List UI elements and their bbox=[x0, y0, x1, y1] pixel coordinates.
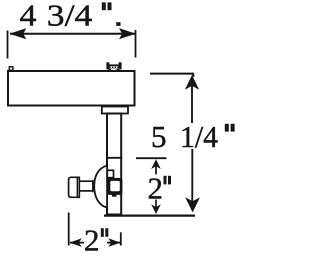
inch quote marks right 2 bbox=[164, 176, 167, 185]
right extension line bbox=[135, 30, 137, 58]
contact clip right foot bbox=[117, 69, 120, 71]
clamp nut lower nub bbox=[112, 195, 117, 197]
contact clip white dashes bbox=[111, 67, 112, 68]
5 1/4 dimension line lower bbox=[191, 149, 193, 205]
bottom 2 inch left arrowhead bbox=[69, 238, 81, 247]
bottom 2 inch left extension line bbox=[68, 213, 70, 246]
knob shaft bottom line bbox=[79, 190, 94, 192]
5 1/4 top reference line bbox=[150, 73, 194, 75]
2 inch down arrowhead bbox=[151, 204, 161, 214]
svg-text:2: 2 bbox=[84, 223, 100, 256]
T-handle cap inner line bbox=[76, 178, 78, 198]
2 inch tick line bbox=[136, 157, 167, 159]
small tab above nut bbox=[107, 170, 113, 177]
stem tube bbox=[107, 114, 121, 215]
2 inch upper stem bbox=[155, 165, 157, 175]
svg-text:4: 4 bbox=[20, 0, 38, 32]
knob horn arc bbox=[94, 166, 106, 208]
left extension line bbox=[7, 31, 9, 59]
small tab on bar top-left bbox=[9, 67, 13, 70]
bottom 2 inch left line bbox=[70, 242, 84, 244]
inch quote marks bottom 2 bbox=[101, 228, 104, 237]
T-handle cap bbox=[69, 177, 80, 197]
5 1/4 dimension line upper bbox=[191, 85, 193, 123]
svg-text:5: 5 bbox=[151, 119, 167, 154]
knob shaft top line bbox=[79, 180, 94, 182]
contact clip dark band bbox=[109, 66, 119, 68]
2 inch lower stem bbox=[155, 200, 157, 209]
contact clip middle top edge bbox=[109, 64, 119, 66]
svg-text:1/4: 1/4 bbox=[180, 119, 218, 154]
dimension line 4 3/4 bbox=[10, 33, 135, 35]
bottom reference line bbox=[104, 215, 195, 217]
knob shaft end flange bbox=[92, 180, 94, 193]
5 1/4 down arrowhead bbox=[185, 197, 200, 212]
contact clip right post bbox=[119, 62, 122, 69]
period dot after top dimension bbox=[116, 22, 120, 26]
arrowhead right bbox=[119, 28, 136, 39]
contact clip left foot bbox=[108, 69, 111, 71]
bottom 2 inch right extension line bbox=[120, 232, 122, 245]
collar under bar bbox=[102, 107, 128, 114]
bottom 2 inch right line bbox=[107, 242, 120, 244]
clamp nut black body bbox=[107, 178, 123, 195]
svg-text:3/4: 3/4 bbox=[47, 0, 93, 32]
arrowhead left bbox=[10, 28, 27, 39]
2 inch up arrowhead bbox=[151, 159, 161, 169]
bottom 2 inch right arrowhead bbox=[108, 238, 120, 247]
reference line end nub bbox=[192, 74, 194, 77]
contact clip left post bbox=[106, 62, 109, 69]
clamp joint line in stem bbox=[106, 157, 122, 159]
inch quote marks top bbox=[102, 2, 106, 10]
inch quote marks 5 1/4 bbox=[225, 124, 229, 132]
5 1/4 up arrowhead bbox=[185, 75, 199, 90]
track bar body bbox=[8, 71, 135, 106]
clamp nut white center bbox=[110, 181, 120, 191]
